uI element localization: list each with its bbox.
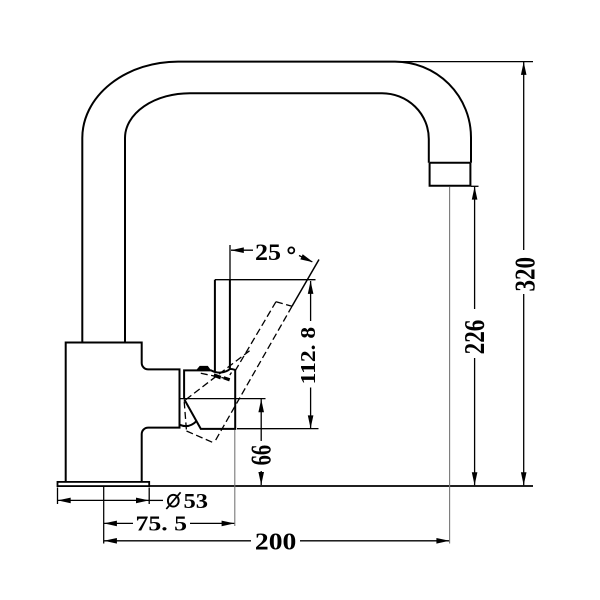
dimension 320	[523, 62, 525, 485]
dimension 75.5	[104, 522, 235, 524]
25 degree reference diagonal line	[292, 260, 319, 307]
dimension 25deg	[231, 250, 312, 262]
dimension 200	[104, 540, 450, 542]
dimension 226	[471, 185, 479, 187]
handle hub	[184, 369, 235, 429]
svg-text:226: 226	[459, 320, 491, 355]
svg-text:53: 53	[184, 489, 209, 513]
vertical extension line x=230	[229, 245, 231, 281]
extension line body centerline	[103, 487, 105, 544]
svg-text:320: 320	[509, 257, 541, 292]
extension line hub right edge	[234, 430, 236, 526]
lever base black lump	[196, 366, 211, 371]
svg-text:66: 66	[245, 445, 277, 466]
aerator	[430, 163, 471, 186]
handle tilted (dashed)	[184, 302, 292, 443]
svg-text:200: 200	[255, 530, 296, 556]
spout outer outline	[82, 62, 471, 343]
lever base tilted black wedge 2	[223, 376, 230, 381]
svg-text:75. 5: 75. 5	[136, 512, 188, 536]
handle lever (vertical position)	[215, 280, 230, 371]
extension line spout centerline	[449, 187, 451, 544]
extension line top (spout top extended)	[395, 61, 533, 63]
ground line	[149, 485, 533, 487]
dimension 66	[180, 398, 266, 400]
body outline	[66, 343, 180, 483]
spout inner outline	[125, 93, 429, 342]
dimension diameter 53	[58, 488, 164, 505]
base flange	[58, 482, 150, 486]
horizontal reference line (handle top extended)	[215, 279, 316, 281]
lever base tilted black wedge	[214, 373, 222, 379]
svg-text:25: 25	[255, 240, 281, 265]
dimension 112.8	[237, 428, 319, 430]
lever bell bottom arc	[180, 421, 197, 426]
svg-text:112. 8: 112. 8	[296, 327, 320, 385]
